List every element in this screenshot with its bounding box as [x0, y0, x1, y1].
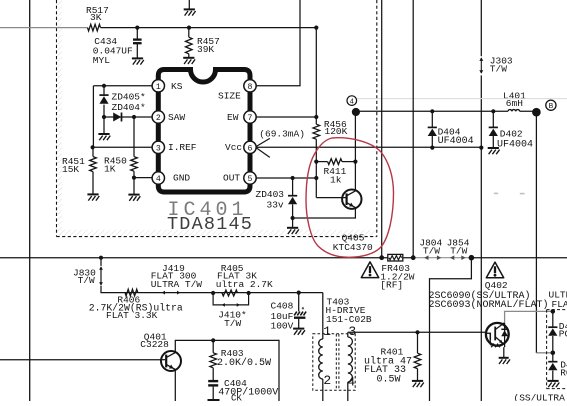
svg-text:T/W: T/W [78, 275, 95, 286]
svg-text:1: 1 [156, 83, 161, 92]
svg-text:4: 4 [350, 99, 354, 107]
svg-text:SIZE: SIZE [218, 90, 241, 101]
svg-text:ultra 2.7K: ultra 2.7K [216, 279, 273, 290]
svg-text:2SC6093(NORMAL/FLAT): 2SC6093(NORMAL/FLAT) [429, 299, 549, 311]
svg-text:3: 3 [348, 324, 356, 339]
svg-text:[RF]: [RF] [380, 279, 403, 290]
svg-text:SAW: SAW [168, 112, 185, 123]
svg-text:D402: D402 [500, 129, 523, 140]
svg-text:Q402: Q402 [485, 280, 508, 291]
svg-text:C3228: C3228 [140, 339, 169, 350]
svg-text:2: 2 [323, 373, 331, 388]
svg-text:1K: 1K [104, 163, 116, 174]
svg-text:GND: GND [173, 173, 190, 184]
svg-text:3: 3 [156, 144, 161, 153]
svg-text:33v: 33v [267, 200, 284, 211]
svg-text:4: 4 [156, 175, 161, 184]
svg-text:Vcc: Vcc [225, 142, 242, 153]
svg-text:7: 7 [248, 114, 253, 123]
svg-text:ZD403: ZD403 [256, 189, 285, 200]
svg-text:RG: RG [560, 367, 567, 378]
svg-text:8: 8 [248, 83, 253, 92]
svg-text:(69.3mA): (69.3mA) [259, 129, 305, 140]
svg-text:PG: PG [559, 328, 567, 339]
svg-text:(SS/ULTRA: (SS/ULTRA [514, 392, 566, 401]
svg-text:TDA8145: TDA8145 [167, 214, 253, 235]
svg-text:2.0K/0.5W: 2.0K/0.5W [217, 357, 271, 369]
svg-text:ULTRA T/W: ULTRA T/W [151, 279, 203, 290]
svg-text:T/W: T/W [224, 318, 241, 329]
svg-text:C408: C408 [271, 301, 294, 312]
svg-text:CK: CK [231, 394, 242, 401]
svg-text:T/W: T/W [450, 245, 467, 256]
svg-text:OUT: OUT [223, 173, 240, 184]
svg-text:KS: KS [171, 81, 183, 92]
svg-text:T/W: T/W [490, 64, 507, 75]
svg-text:1: 1 [323, 324, 331, 339]
svg-text:EW: EW [227, 112, 239, 123]
svg-text:2: 2 [156, 114, 161, 123]
svg-text:6mH: 6mH [506, 98, 523, 109]
svg-text:120K: 120K [325, 126, 348, 137]
svg-text:3K: 3K [90, 12, 102, 23]
svg-text:0.5W: 0.5W [377, 375, 401, 386]
svg-text:ZD404*: ZD404* [112, 102, 146, 113]
svg-text:UF4004: UF4004 [497, 139, 533, 150]
svg-text:1k: 1k [330, 174, 342, 185]
svg-text:T/W: T/W [423, 245, 440, 256]
svg-text:15K: 15K [62, 164, 79, 175]
svg-text:FLAT: FLAT [552, 299, 567, 310]
svg-text:470P/1000V: 470P/1000V [218, 387, 278, 399]
svg-text:UF4004: UF4004 [438, 136, 474, 147]
svg-text:6: 6 [248, 144, 253, 153]
svg-text:5: 5 [248, 175, 253, 184]
svg-text:I.REF: I.REF [168, 142, 197, 153]
svg-text:100V: 100V [271, 320, 294, 331]
svg-text:MYL: MYL [93, 55, 110, 66]
svg-text:39K: 39K [197, 44, 214, 55]
svg-text:B: B [549, 103, 554, 111]
svg-text:4: 4 [347, 375, 355, 390]
svg-text:FLAT 3.3K: FLAT 3.3K [106, 310, 158, 321]
svg-text:KTC4370: KTC4370 [333, 242, 373, 253]
